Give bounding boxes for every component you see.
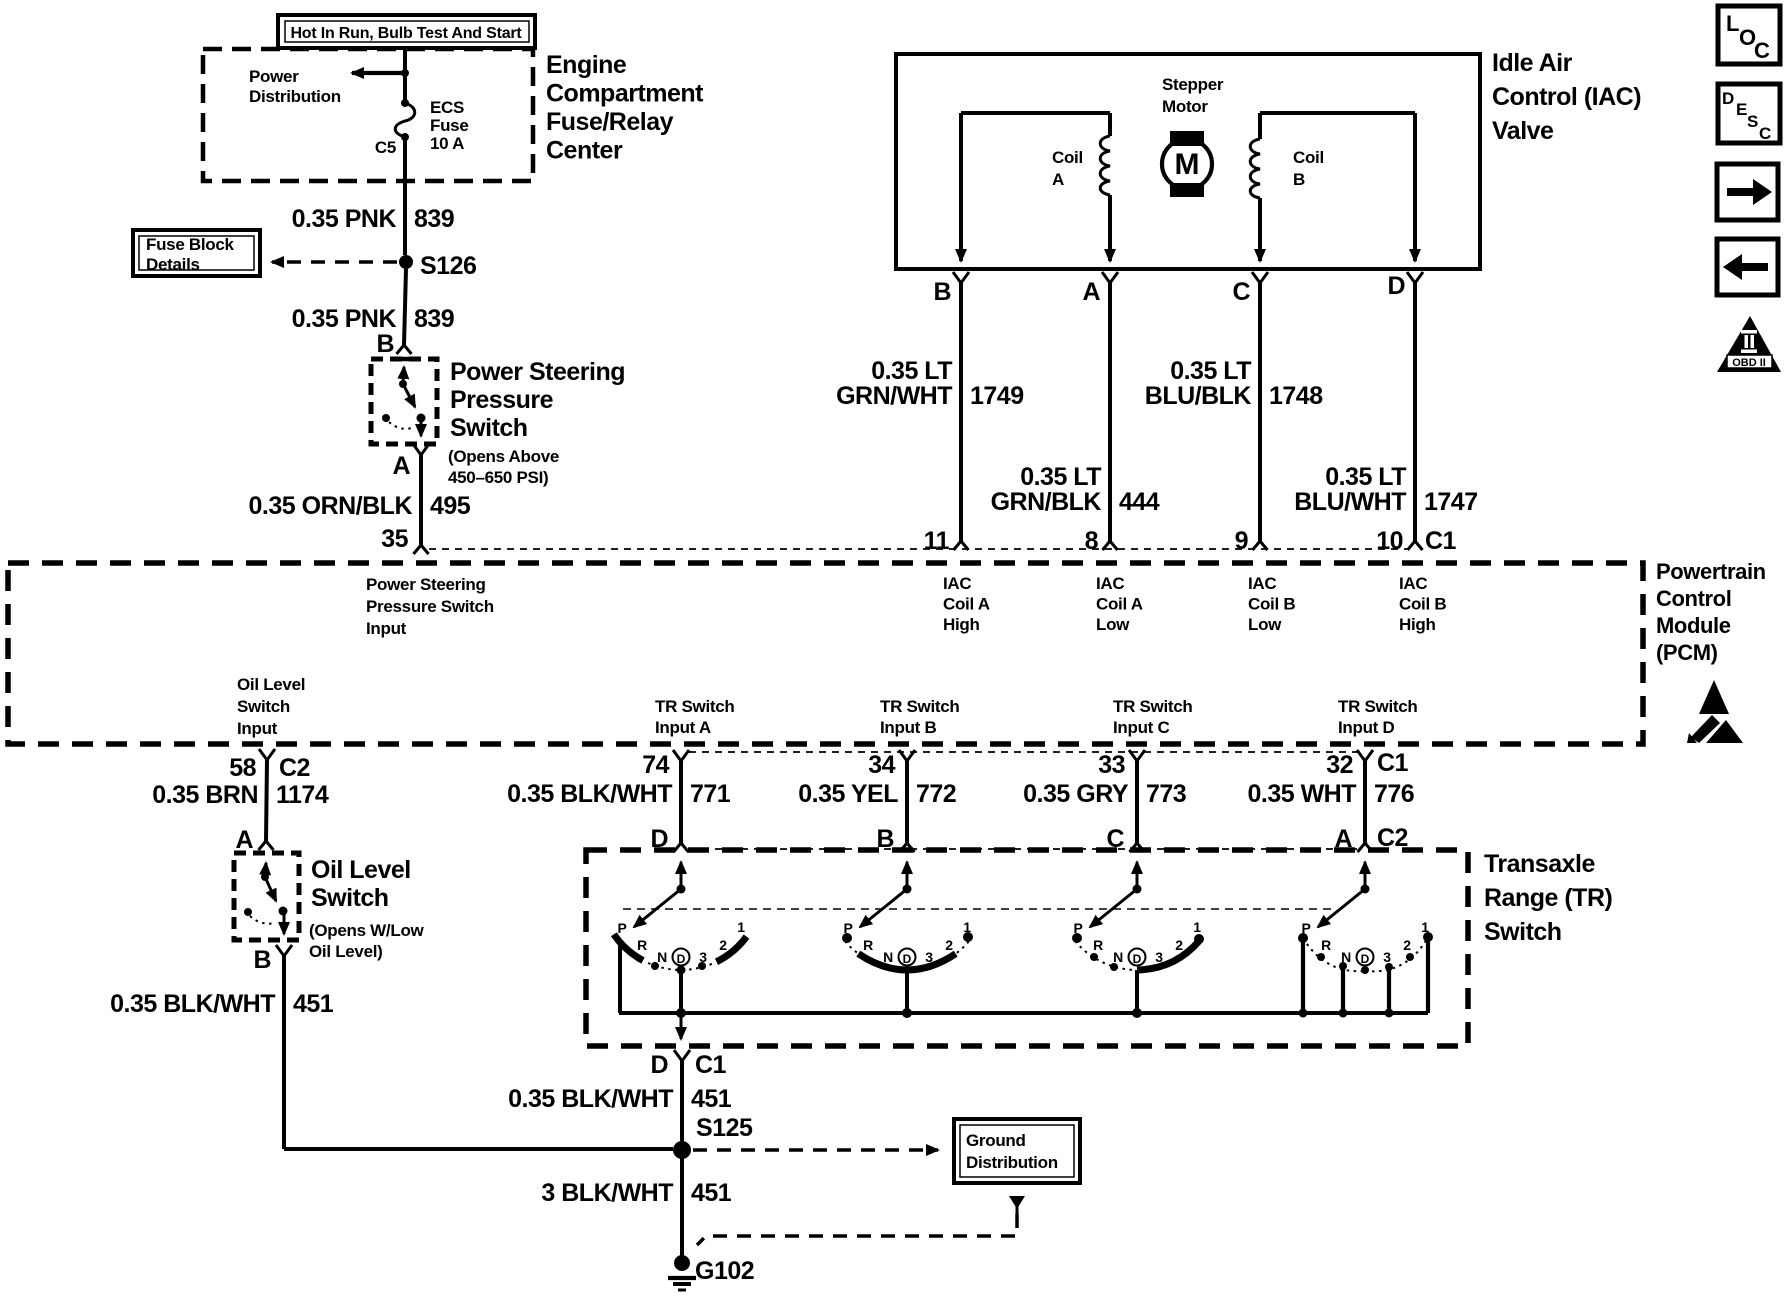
- powertrain control module (PCM) dashed box: [8, 563, 1643, 744]
- travel arc (dotted): [250, 916, 275, 924]
- svg-text:0.35 BRN: 0.35 BRN: [152, 781, 258, 809]
- switch blade arrow: [265, 863, 266, 877]
- connector at pin B: [397, 345, 412, 354]
- svg-text:9: 9: [1235, 527, 1248, 555]
- svg-text:ECS: ECS: [430, 98, 464, 117]
- LOC button: [1718, 6, 1780, 64]
- wire: coil B high to pin D: [1413, 113, 1417, 261]
- svg-text:G102: G102: [695, 1257, 754, 1285]
- svg-text:IAC: IAC: [1248, 574, 1276, 593]
- svg-text:S: S: [1747, 112, 1758, 131]
- wire: 0.35 LT BLU/WHT 1747: [1413, 283, 1417, 541]
- svg-text:0.35 GRY: 0.35 GRY: [1023, 780, 1129, 808]
- svg-text:Motor: Motor: [1162, 97, 1208, 116]
- svg-text:Input A: Input A: [655, 718, 711, 737]
- connector at PCM pin 8: [1103, 541, 1118, 550]
- wire: coil A high to pin B: [959, 113, 963, 261]
- svg-text:Hot In Run, Bulb Test And Star: Hot In Run, Bulb Test And Start: [290, 25, 522, 42]
- svg-text:Coil: Coil: [1052, 148, 1083, 167]
- svg-text:S125: S125: [696, 1114, 753, 1142]
- svg-text:M: M: [1175, 148, 1200, 181]
- svg-text:C2: C2: [279, 754, 310, 782]
- svg-text:Details: Details: [146, 255, 200, 274]
- svg-text:A: A: [1052, 170, 1064, 189]
- connector at PCM pin 34: [899, 750, 915, 761]
- connector at PCM pin 33: [1129, 750, 1145, 761]
- travel arc (dotted): [389, 422, 412, 429]
- svg-text:IAC: IAC: [1096, 574, 1124, 593]
- svg-text:A: A: [235, 826, 253, 854]
- splice S125: [673, 1141, 691, 1159]
- TR switch ground output arrow: [680, 1013, 683, 1039]
- svg-text:33: 33: [1098, 751, 1125, 779]
- wire: 0.35 GRY 773 (TR switch input C): [1135, 761, 1139, 843]
- switch blade to contact: [265, 877, 276, 901]
- svg-text:Distribution: Distribution: [966, 1153, 1058, 1172]
- connector at IAC pin B: [953, 272, 969, 283]
- svg-text:Pressure: Pressure: [450, 386, 554, 414]
- svg-text:TR Switch: TR Switch: [655, 697, 734, 716]
- wire: coil A low to pin A: [1108, 195, 1112, 261]
- wire: coil B low to pin C: [1258, 198, 1262, 261]
- selector linkage (dashed): [623, 908, 1331, 910]
- svg-text:10 A: 10 A: [430, 134, 464, 153]
- switch blade arrow (closed toward bar): [403, 367, 404, 384]
- svg-text:451: 451: [691, 1179, 732, 1207]
- svg-text:Oil Level: Oil Level: [237, 675, 305, 694]
- svg-text:0.35 YEL: 0.35 YEL: [798, 780, 898, 808]
- contact R: [1090, 953, 1098, 961]
- svg-text:A: A: [1082, 278, 1100, 306]
- wire: 0.35 WHT 776 (TR switch input D): [1363, 761, 1367, 843]
- wire: P contact to common: [1301, 938, 1305, 1013]
- svg-text:L: L: [1726, 11, 1739, 36]
- svg-text:BLU/WHT: BLU/WHT: [1294, 488, 1406, 516]
- svg-text:2: 2: [945, 937, 953, 953]
- svg-text:Oil Level): Oil Level): [309, 942, 383, 961]
- contact N: [1339, 962, 1347, 970]
- wire: 3 BLK/WHT 451 (S125 to G102): [680, 1150, 684, 1258]
- connector at TR switch pin D (C1): [674, 1050, 690, 1061]
- svg-text:C5: C5: [375, 138, 396, 157]
- svg-text:N: N: [657, 949, 667, 965]
- svg-text:D: D: [903, 952, 912, 966]
- contact P: [1072, 933, 1082, 943]
- svg-text:IAC: IAC: [1399, 574, 1427, 593]
- wire: to splice S125: [284, 1147, 673, 1151]
- DESC button: [1718, 84, 1780, 143]
- svg-text:Fuse: Fuse: [430, 116, 468, 135]
- svg-text:(Opens W/Low: (Opens W/Low: [309, 921, 425, 940]
- switch output arrow: [420, 421, 423, 436]
- wire: 0.35 LT GRN/BLK 444: [1108, 283, 1112, 541]
- TR harness upper connector C1 line: [689, 751, 1357, 753]
- svg-text:High: High: [943, 615, 980, 634]
- svg-text:0.35 LT: 0.35 LT: [1170, 357, 1251, 385]
- connector at PCM pin 32: [1357, 750, 1373, 761]
- svg-text:Input: Input: [237, 719, 278, 738]
- dashed arrow to Ground Distribution: [693, 1148, 938, 1152]
- svg-text:IAC: IAC: [943, 574, 971, 593]
- switch contact (closed): [417, 414, 426, 423]
- svg-text:Transaxle: Transaxle: [1484, 850, 1595, 878]
- svg-text:1748: 1748: [1269, 382, 1323, 410]
- svg-text:Power Steering: Power Steering: [450, 358, 625, 386]
- svg-text:P: P: [617, 920, 626, 936]
- contact 1: [963, 932, 973, 942]
- svg-text:C1: C1: [1377, 749, 1409, 777]
- wire: N contact to common: [1341, 966, 1345, 1013]
- connector at PCM pin 11: [954, 541, 969, 550]
- svg-text:D: D: [1361, 952, 1370, 966]
- svg-text:Center: Center: [546, 137, 623, 165]
- svg-text:450–650 PSI): 450–650 PSI): [448, 468, 548, 487]
- wire: coil A top: [961, 111, 1110, 115]
- svg-text:D: D: [1387, 272, 1405, 300]
- back arrow button: [1717, 239, 1778, 295]
- contact R: [1317, 953, 1325, 961]
- svg-text:Coil A: Coil A: [943, 595, 990, 614]
- svg-text:B: B: [933, 278, 951, 306]
- svg-text:2: 2: [1175, 937, 1183, 953]
- svg-text:Control (IAC): Control (IAC): [1492, 83, 1641, 111]
- svg-text:74: 74: [642, 751, 669, 779]
- svg-text:451: 451: [293, 990, 334, 1018]
- engine compartment fuse/relay center dashed box: [203, 49, 533, 181]
- svg-text:Distribution: Distribution: [249, 87, 341, 106]
- switch blade to contact: [403, 384, 415, 407]
- svg-text:3 BLK/WHT: 3 BLK/WHT: [541, 1179, 673, 1207]
- svg-text:0.35 BLK/WHT: 0.35 BLK/WHT: [508, 1085, 673, 1113]
- connector at TR switch pin A: [1358, 843, 1373, 852]
- svg-text:Oil Level: Oil Level: [311, 856, 411, 884]
- svg-text:D: D: [1133, 952, 1142, 966]
- switch pivot: [261, 873, 269, 881]
- switch contact (closed): [279, 907, 288, 916]
- fuse F1: ECS Fuse 10 A: [401, 99, 409, 107]
- svg-text:Input: Input: [366, 619, 407, 638]
- ESD sensitive device symbol: [1699, 680, 1729, 714]
- junction: [902, 1008, 912, 1018]
- svg-text:R: R: [1093, 937, 1103, 953]
- svg-text:S126: S126: [420, 252, 476, 280]
- connector at TR switch pin C: [1130, 843, 1145, 852]
- svg-text:R: R: [637, 937, 647, 953]
- svg-text:GRN/BLK: GRN/BLK: [991, 488, 1102, 516]
- svg-text:11: 11: [924, 527, 950, 555]
- svg-text:772: 772: [916, 780, 956, 808]
- svg-text:Pressure Switch: Pressure Switch: [366, 597, 494, 616]
- svg-text:0.35 BLK/WHT: 0.35 BLK/WHT: [110, 990, 275, 1018]
- connector at IAC pin A: [1102, 272, 1118, 283]
- switch pivot: [399, 380, 407, 388]
- oil level switch SW2 dashed box: [234, 853, 299, 940]
- connector at oil level switch pin A: [259, 841, 274, 850]
- ground G102: [674, 1255, 690, 1271]
- svg-text:Control: Control: [1656, 586, 1731, 611]
- dashed link: ground distribution to G102: [1009, 1196, 1025, 1209]
- svg-text:Powertrain: Powertrain: [1656, 559, 1766, 584]
- wire: 3 contact to common: [1387, 967, 1391, 1013]
- transaxle range (TR) switch dashed box: [586, 850, 1468, 1046]
- svg-text:TR Switch: TR Switch: [1338, 697, 1417, 716]
- TR switch wafer A (SW3a): [680, 862, 683, 889]
- switch fixed contact bar: [394, 357, 415, 362]
- svg-text:Ground: Ground: [966, 1131, 1026, 1150]
- arrow: to Power Distribution: [352, 71, 405, 75]
- switch contact (open): [382, 414, 390, 422]
- wire: 0.35 LT BLU/BLK 1748: [1258, 283, 1262, 541]
- wire: coil B top: [1260, 111, 1415, 115]
- wire: D contact to common: [905, 970, 909, 1013]
- svg-text:Valve: Valve: [1492, 117, 1554, 145]
- svg-text:(PCM): (PCM): [1656, 640, 1718, 665]
- svg-text:1747: 1747: [1424, 488, 1478, 516]
- connector at TR switch pin D: [674, 843, 689, 852]
- connector at TR switch pin B: [900, 843, 915, 852]
- contact P: [842, 933, 852, 943]
- fuse block details reference box: [133, 230, 260, 276]
- junction: [676, 1008, 686, 1018]
- svg-text:1: 1: [1193, 919, 1201, 935]
- svg-text:Input C: Input C: [1113, 718, 1169, 737]
- svg-text:TR Switch: TR Switch: [880, 697, 959, 716]
- svg-text:B: B: [1293, 170, 1305, 189]
- svg-text:0.35 PNK: 0.35 PNK: [292, 305, 397, 333]
- svg-text:0.35 LT: 0.35 LT: [871, 357, 952, 385]
- svg-text:Input B: Input B: [880, 718, 936, 737]
- svg-text:A: A: [392, 452, 410, 480]
- svg-text:Switch: Switch: [237, 697, 290, 716]
- svg-text:0.35 LT: 0.35 LT: [1325, 463, 1406, 491]
- svg-text:32: 32: [1326, 751, 1353, 779]
- node: branch to power distribution: [401, 69, 409, 77]
- svg-text:E: E: [1736, 100, 1747, 119]
- svg-text:35: 35: [381, 525, 408, 553]
- wire: 0.35 YEL 772 (TR switch input B): [905, 761, 909, 843]
- svg-text:TR Switch: TR Switch: [1113, 697, 1192, 716]
- wire: 0.35 PNK 839 (fuse C5 to S126): [403, 137, 407, 255]
- contact 1: [1423, 932, 1433, 942]
- svg-text:B: B: [253, 946, 271, 974]
- svg-text:773: 773: [1146, 780, 1186, 808]
- svg-text:Power Steering: Power Steering: [366, 575, 486, 594]
- svg-text:B: B: [876, 825, 894, 853]
- OBD II symbol: [1717, 316, 1781, 372]
- svg-text:Low: Low: [1096, 615, 1130, 634]
- junction: [1132, 1008, 1142, 1018]
- wire: 0.35 PNK 839 (S126 to switch B): [404, 269, 406, 345]
- contact D: [1361, 966, 1369, 974]
- svg-text:D: D: [677, 952, 686, 966]
- svg-text:3: 3: [1383, 949, 1391, 965]
- svg-text:2: 2: [1403, 937, 1411, 953]
- svg-text:Idle Air: Idle Air: [1492, 49, 1573, 77]
- dashed arrow to Fuse Block Details: [272, 260, 397, 264]
- svg-text:B: B: [376, 330, 394, 358]
- svg-text:1174: 1174: [276, 781, 329, 809]
- contact N: [1110, 963, 1118, 971]
- junction: [1299, 1009, 1308, 1018]
- svg-text:Power: Power: [249, 67, 299, 86]
- svg-text:Input D: Input D: [1338, 718, 1394, 737]
- svg-text:495: 495: [430, 492, 471, 520]
- svg-text:0.35 BLK/WHT: 0.35 BLK/WHT: [507, 780, 672, 808]
- svg-text:Engine: Engine: [546, 51, 627, 79]
- TR harness lower connector C2 line: [689, 848, 1357, 850]
- svg-text:1749: 1749: [970, 382, 1024, 410]
- svg-text:C: C: [1759, 124, 1771, 143]
- svg-text:2: 2: [719, 937, 727, 953]
- svg-text:Coil A: Coil A: [1096, 595, 1143, 614]
- power steering pressure switch SW1 dashed box: [371, 359, 437, 444]
- svg-text:58: 58: [229, 754, 256, 782]
- contact 3: [1385, 963, 1393, 971]
- connector at PCM pin 10: [1408, 541, 1423, 550]
- connector pin 35 at PCM C1: [414, 545, 429, 554]
- svg-text:34: 34: [868, 751, 895, 779]
- svg-text:C: C: [1232, 278, 1250, 306]
- svg-text:High: High: [1399, 615, 1436, 634]
- svg-text:10: 10: [1376, 527, 1403, 555]
- svg-text:Range (TR): Range (TR): [1484, 884, 1613, 912]
- TR switch common bus: [619, 1011, 1428, 1015]
- PCM connector C1 line: [429, 548, 1407, 550]
- wire: 0.35 BRN 1174: [266, 760, 267, 841]
- connector at PCM pin 9: [1253, 541, 1268, 550]
- idle air control (IAC) valve box: [896, 54, 1480, 269]
- splice S126: [399, 255, 413, 269]
- forward arrow button: [1717, 164, 1778, 220]
- wire: hot feed into fuse: [403, 48, 407, 103]
- svg-text:839: 839: [414, 205, 454, 233]
- svg-text:Compartment: Compartment: [546, 80, 704, 108]
- contact P: [1298, 933, 1308, 943]
- svg-text:Fuse/Relay: Fuse/Relay: [546, 108, 674, 136]
- wire: 0.35 BLK/WHT 451 (oil level switch to S125): [282, 956, 286, 1149]
- stepper motor M1: [1170, 131, 1204, 146]
- wire: D contact to common: [679, 970, 683, 1013]
- svg-text:0.35 ORN/BLK: 0.35 ORN/BLK: [249, 492, 413, 520]
- wire: D contact to common: [1135, 970, 1139, 1013]
- connector at IAC pin C: [1252, 272, 1268, 283]
- svg-text:C1: C1: [695, 1051, 727, 1079]
- ground distribution reference box: [954, 1119, 1080, 1183]
- svg-text:Switch: Switch: [1484, 918, 1562, 946]
- svg-text:R: R: [863, 937, 873, 953]
- svg-text:N: N: [1113, 949, 1123, 965]
- svg-text:771: 771: [690, 780, 731, 808]
- svg-text:839: 839: [414, 305, 454, 333]
- svg-text:Stepper: Stepper: [1162, 75, 1224, 94]
- svg-text:D: D: [1722, 89, 1734, 108]
- TR switch wafer D (SW3d): [1364, 862, 1367, 889]
- wire: 1 contact to common: [1426, 937, 1430, 1013]
- svg-text:Coil B: Coil B: [1248, 595, 1295, 614]
- svg-text:D: D: [650, 1051, 668, 1079]
- svg-text:BLU/BLK: BLU/BLK: [1145, 382, 1252, 410]
- contact 1: [1194, 934, 1204, 944]
- svg-text:8: 8: [1085, 527, 1099, 555]
- svg-text:1: 1: [737, 919, 745, 935]
- contact 2: [1406, 953, 1414, 961]
- svg-text:Low: Low: [1248, 615, 1282, 634]
- TR switch wafer C (SW3c): [1136, 862, 1139, 889]
- power feed box: Hot In Run, Bulb Test And Start: [278, 15, 535, 48]
- svg-text:776: 776: [1374, 780, 1414, 808]
- connector at oil level switch pin B: [276, 945, 292, 956]
- svg-text:0.35 LT: 0.35 LT: [1020, 463, 1101, 491]
- switch output arrow: [283, 914, 286, 934]
- svg-text:C: C: [1754, 38, 1770, 63]
- svg-text:R: R: [1321, 937, 1331, 953]
- connector at PCM pin 58 (C2): [259, 749, 275, 760]
- svg-text:Fuse Block: Fuse Block: [146, 235, 235, 254]
- connector at pin A: [413, 444, 429, 455]
- svg-text:0.35 WHT: 0.35 WHT: [1247, 780, 1356, 808]
- switch contact (open): [244, 908, 252, 916]
- connector at PCM pin 74: [673, 750, 689, 761]
- svg-text:451: 451: [691, 1085, 732, 1113]
- svg-text:OBD II: OBD II: [1732, 357, 1766, 369]
- TR switch wafer B (SW3b): [906, 862, 909, 889]
- svg-text:Coil: Coil: [1293, 148, 1324, 167]
- junction: [1339, 1009, 1348, 1018]
- svg-text:Coil B: Coil B: [1399, 595, 1446, 614]
- junction: [1385, 1009, 1394, 1018]
- svg-text:0.35 PNK: 0.35 PNK: [292, 205, 397, 233]
- wire: 0.35 BLK/WHT 451 (TR switch to S125): [680, 1061, 684, 1141]
- svg-text:Switch: Switch: [450, 414, 528, 442]
- wire: 0.35 ORN/BLK 495: [419, 455, 423, 545]
- wire: 0.35 LT GRN/WHT 1749: [959, 283, 963, 541]
- svg-text:(Opens Above: (Opens Above: [448, 447, 559, 466]
- svg-text:N: N: [883, 949, 893, 965]
- svg-text:GRN/WHT: GRN/WHT: [836, 382, 952, 410]
- wire: P contact to common: [618, 944, 622, 1013]
- wire: 0.35 BLK/WHT 771 (TR switch input A): [679, 761, 683, 843]
- svg-text:Switch: Switch: [311, 884, 389, 912]
- connector at IAC pin D: [1407, 272, 1423, 283]
- svg-text:Module: Module: [1656, 613, 1731, 638]
- svg-text:C1: C1: [1425, 527, 1457, 555]
- svg-text:444: 444: [1119, 488, 1160, 516]
